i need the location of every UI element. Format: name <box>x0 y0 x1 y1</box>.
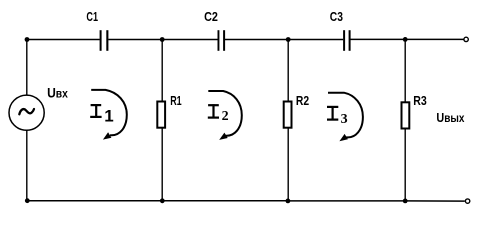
capacitor C2 <box>218 30 226 51</box>
wire R2 to bottom rail <box>287 128 289 201</box>
wire node B to R1 <box>161 40 163 102</box>
wire top rail: node A to C1 <box>27 39 100 41</box>
wire R3 to bottom rail <box>404 129 406 201</box>
wire source bottom to node E <box>26 130 28 201</box>
resistor R2 <box>284 102 292 128</box>
mesh current loop I2 (arc with arrowhead) <box>208 91 242 140</box>
capacitor C1 <box>100 30 109 51</box>
output terminal bottom (open circle) <box>465 199 469 203</box>
node F (junction R1 bottom rail) <box>160 198 165 203</box>
wire top rail: C3 to node D <box>351 38 406 40</box>
svg-text:R3: R3 <box>413 94 427 108</box>
capacitor C3 <box>343 30 351 51</box>
node B (junction C1/C2/R1 top) <box>160 37 165 42</box>
wire source top to node A <box>26 40 28 96</box>
wire top rail: node B to C2 <box>162 39 217 41</box>
mesh current loop I3 (arc with arrowhead) <box>328 93 363 142</box>
node H (junction R3 bottom rail) <box>403 199 408 204</box>
svg-text:1: 1 <box>104 106 113 125</box>
node D (junction C3/R3/output top) <box>403 37 408 42</box>
wire bottom rail: node E to node F <box>27 200 163 202</box>
svg-text:C3: C3 <box>330 10 343 24</box>
label I2 (drawn serif I with subscript 2) <box>208 104 229 124</box>
AC source Uвх (circle with tilde) <box>9 95 44 130</box>
wire top rail: C2 to node C <box>225 39 288 41</box>
svg-text:Uвых: Uвых <box>436 110 464 125</box>
wire node D to R3 <box>404 39 406 102</box>
node C (junction C2/C3/R2 top) <box>286 37 291 42</box>
svg-text:R2: R2 <box>296 94 309 108</box>
wire node C to R2 <box>287 40 289 102</box>
wire bottom rail: node H to output terminal <box>405 200 465 202</box>
wire R1 to bottom rail <box>161 128 163 200</box>
label I1 (drawn serif I with subscript 1) <box>90 104 113 125</box>
wire top rail: node D to output terminal <box>405 38 463 40</box>
svg-text:R1: R1 <box>170 94 182 108</box>
resistor R3 <box>402 102 410 128</box>
svg-text:3: 3 <box>341 112 348 127</box>
label I3 (drawn serif I with subscript 3) <box>327 106 348 127</box>
mesh current loop I1 (arc with arrowhead) <box>91 90 127 140</box>
wire top rail: C1 to node B <box>108 39 162 41</box>
output terminal top (open circle) <box>464 37 468 41</box>
wire bottom rail: node F to node G <box>162 200 288 202</box>
node A (junction source/C1 top) <box>25 37 30 42</box>
wire top rail: node C to C3 <box>288 39 343 41</box>
svg-text:Uвх: Uвх <box>47 84 68 100</box>
svg-text:2: 2 <box>222 109 229 124</box>
svg-text:C2: C2 <box>204 10 218 24</box>
node E (junction source bottom rail) <box>25 198 30 203</box>
wire bottom rail: node G to node H <box>288 200 405 202</box>
node G (junction R2 bottom rail) <box>286 199 291 204</box>
svg-text:C1: C1 <box>86 10 98 24</box>
resistor R1 <box>157 102 165 128</box>
